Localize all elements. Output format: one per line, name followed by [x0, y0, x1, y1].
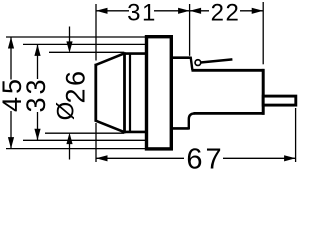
dimension line diameter-26 upper shaft (x=69.5) [69, 27, 71, 43]
dimension line 22 (y=10.8) [190, 10, 209, 12]
extension line horizontal y=44.4 for 33 [23, 43, 147, 45]
arrowhead left of 67 [96, 155, 108, 161]
dimension line 67 (y=158.3) [96, 157, 184, 159]
dimension line 31 (y=10.8) [96, 10, 129, 12]
lens bottom chamfer [95, 120, 125, 132]
body rear edge [262, 69, 265, 115]
neck bottom edge [124, 131, 147, 134]
arrowhead bottom of 45 [8, 137, 14, 149]
lens rim rear edge [123, 52, 126, 133]
svg-text:31: 31 [127, 0, 157, 27]
flange (bezel) rectangle [147, 37, 172, 149]
spring clip arm [201, 59, 233, 62]
svg-text:26: 26 [61, 68, 91, 103]
spring clip pivot circle [195, 60, 201, 66]
lens front face [94, 64, 97, 122]
extension line horizontal y=37 for 45 [6, 36, 147, 38]
dimension line 45 vertical (x=11) [10, 37, 12, 80]
body top edge [192, 69, 265, 72]
extension line horizontal y=52.3 for diameter 26 [49, 51, 124, 53]
collar bottom edge [171, 127, 189, 130]
lens top chamfer [95, 53, 125, 65]
extension line vertical at lens front (x=96) bottom for 67 [95, 123, 97, 162]
collar bottom-right edge with fillet into body bottom [189, 113, 195, 129]
extension line vertical at panel plane (x=189.6) [189, 4, 191, 56]
arrowhead pointing down to y=52.3 [66, 41, 72, 53]
dimension line diameter-26 lower shaft (x=69.5) [69, 144, 71, 160]
extension line horizontal y=148.6 for 45 [6, 148, 147, 150]
lens rim groove line [129, 53, 131, 133]
svg-text:67: 67 [186, 144, 224, 174]
dimension line 33 vertical (x=37.5) [37, 44, 39, 79]
arrowhead right of 67 [284, 155, 296, 161]
arrowhead left of 31 [96, 8, 108, 14]
body bottom edge [194, 112, 265, 115]
extension line vertical at lens front (x=96) top [95, 4, 97, 61]
arrowhead right of 31 [178, 8, 190, 14]
neck top edge [124, 52, 147, 55]
terminal pin [263, 96, 296, 105]
collar top-right drop [191, 57, 193, 71]
arrowhead right of 22 [252, 8, 264, 14]
svg-text:22: 22 [211, 0, 241, 27]
svg-text:33: 33 [21, 76, 51, 112]
extension line horizontal y=140.3 for 33 [23, 139, 147, 141]
collar top edge [171, 56, 190, 59]
arrowhead left of 22 [190, 8, 202, 14]
extension line horizontal y=133.2 for diameter 26 [45, 132, 124, 134]
extension line vertical at body rear (x=263.2) [262, 2, 264, 64]
extension line vertical at terminal end (x=295.6) [295, 108, 297, 162]
arrowhead bottom of 33 [34, 129, 40, 141]
arrowhead top of 33 [34, 44, 40, 56]
arrowhead top of 45 [8, 37, 14, 49]
arrowhead pointing up to y=133.2 [66, 133, 72, 145]
